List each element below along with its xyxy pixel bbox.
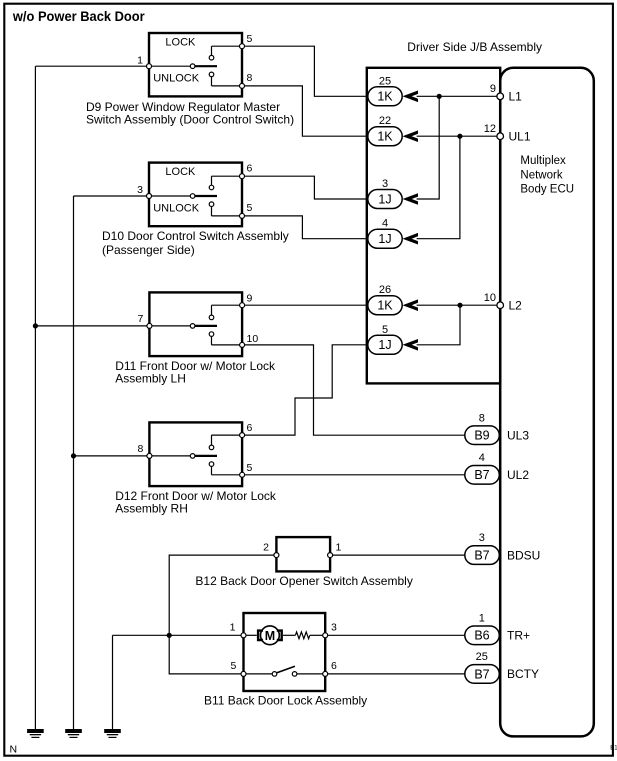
svg-text:B9: B9 bbox=[474, 429, 489, 443]
svg-text:LOCK: LOCK bbox=[165, 36, 196, 48]
svg-text:9: 9 bbox=[490, 83, 496, 95]
svg-text:Assembly LH: Assembly LH bbox=[115, 372, 186, 386]
svg-text:6: 6 bbox=[247, 422, 253, 434]
svg-text:8: 8 bbox=[479, 412, 485, 424]
svg-text:6: 6 bbox=[331, 660, 337, 672]
svg-text:LOCK: LOCK bbox=[165, 166, 196, 178]
svg-text:22: 22 bbox=[379, 115, 391, 127]
svg-text:7: 7 bbox=[138, 313, 144, 325]
svg-text:10: 10 bbox=[247, 333, 259, 345]
svg-text:Assembly RH: Assembly RH bbox=[115, 502, 188, 516]
svg-text:TR+: TR+ bbox=[507, 629, 530, 643]
svg-text:5: 5 bbox=[247, 33, 253, 45]
svg-text:B6: B6 bbox=[474, 629, 489, 643]
svg-text:Body ECU: Body ECU bbox=[520, 184, 574, 196]
svg-text:M: M bbox=[265, 629, 275, 643]
svg-text:UNLOCK: UNLOCK bbox=[153, 202, 200, 214]
svg-text:5: 5 bbox=[382, 324, 388, 336]
svg-text:BCTY: BCTY bbox=[507, 667, 539, 681]
svg-text:4: 4 bbox=[479, 452, 485, 464]
svg-text:1K: 1K bbox=[377, 299, 393, 313]
svg-text:UL2: UL2 bbox=[507, 468, 529, 482]
svg-text:8: 8 bbox=[138, 443, 144, 455]
svg-text:L2: L2 bbox=[509, 298, 523, 312]
svg-text:Driver Side J/B Assembly: Driver Side J/B Assembly bbox=[407, 40, 542, 54]
svg-text:UL1: UL1 bbox=[509, 129, 531, 143]
svg-text:12: 12 bbox=[484, 123, 496, 135]
svg-text:3: 3 bbox=[479, 532, 485, 544]
svg-text:D10 Door Control Switch Assemb: D10 Door Control Switch Assembly bbox=[102, 229, 289, 243]
svg-text:N: N bbox=[10, 743, 18, 755]
svg-text:B7: B7 bbox=[474, 667, 489, 681]
svg-text:B11 Back Door Lock Assembly: B11 Back Door Lock Assembly bbox=[204, 694, 367, 708]
svg-text:2: 2 bbox=[263, 542, 269, 554]
svg-text:B12 Back Door Opener Switch As: B12 Back Door Opener Switch Assembly bbox=[195, 574, 412, 588]
svg-text:1J: 1J bbox=[378, 192, 391, 206]
svg-text:25: 25 bbox=[379, 75, 391, 87]
svg-text:B7: B7 bbox=[474, 549, 489, 563]
svg-text:1: 1 bbox=[479, 612, 485, 624]
svg-text:UL3: UL3 bbox=[507, 428, 529, 442]
svg-text:6: 6 bbox=[247, 163, 253, 175]
svg-text:L1: L1 bbox=[509, 90, 523, 104]
svg-text:5: 5 bbox=[247, 462, 253, 474]
svg-text:B7: B7 bbox=[474, 468, 489, 482]
svg-text:1K: 1K bbox=[377, 90, 393, 104]
svg-text:9: 9 bbox=[247, 292, 253, 304]
svg-text:5: 5 bbox=[247, 202, 253, 214]
svg-text:1J: 1J bbox=[378, 232, 391, 246]
svg-text:3: 3 bbox=[137, 184, 143, 196]
svg-text:BDSU: BDSU bbox=[507, 548, 540, 562]
svg-text:Switch Assembly (Door Control: Switch Assembly (Door Control Switch) bbox=[86, 112, 294, 126]
svg-text:8: 8 bbox=[247, 72, 253, 84]
svg-text:10: 10 bbox=[484, 292, 496, 304]
svg-text:Multiplex: Multiplex bbox=[520, 155, 566, 167]
svg-text:3: 3 bbox=[331, 622, 337, 634]
svg-text:5: 5 bbox=[231, 660, 237, 672]
svg-text:1: 1 bbox=[137, 54, 143, 66]
svg-text:26: 26 bbox=[379, 284, 391, 296]
svg-text:1: 1 bbox=[336, 542, 342, 554]
svg-text:B120074E03: B120074E03 bbox=[610, 746, 617, 752]
svg-text:1J: 1J bbox=[378, 338, 391, 352]
svg-text:w/o Power Back Door: w/o Power Back Door bbox=[12, 9, 145, 24]
svg-text:3: 3 bbox=[382, 178, 388, 190]
svg-text:UNLOCK: UNLOCK bbox=[153, 73, 200, 85]
svg-text:1: 1 bbox=[230, 622, 236, 634]
svg-text:1K: 1K bbox=[377, 130, 393, 144]
svg-text:25: 25 bbox=[476, 651, 488, 663]
svg-text:(Passenger Side): (Passenger Side) bbox=[102, 243, 195, 257]
svg-text:Network: Network bbox=[520, 169, 562, 181]
svg-text:4: 4 bbox=[382, 218, 388, 230]
